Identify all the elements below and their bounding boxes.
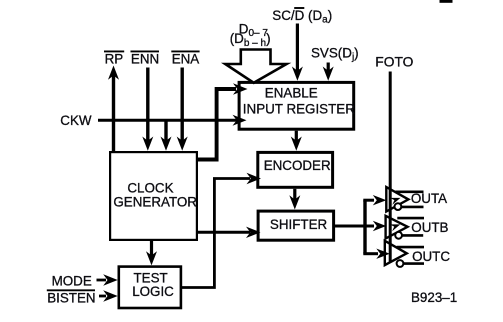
arrowhead into OUTA buffer edge	[373, 195, 387, 205]
svg-text:FOTO: FOTO	[375, 55, 413, 70]
label TEST LOGIC	[132, 270, 174, 299]
wire clock generator to test logic	[146, 241, 157, 265]
box CLOCK GENERATOR outline	[110, 152, 197, 240]
label ENABLE INPUT REGISTER	[243, 86, 355, 117]
wire test logic to encoder	[182, 173, 261, 288]
arrowhead into OUTB buffer edge	[373, 221, 387, 231]
arrowhead into OUTC buffer edge	[376, 249, 390, 259]
svg-text:TEST: TEST	[134, 270, 168, 285]
svg-text:ENCODER: ENCODER	[264, 158, 331, 173]
label SC/D (Da) with D overlined	[272, 8, 332, 26]
inner signal arrow of OUTA buffer	[390, 198, 401, 205]
svg-text:BISTEN: BISTEN	[47, 290, 95, 305]
svg-text:INPUT REGISTER: INPUT REGISTER	[243, 101, 355, 116]
OUTA top stub wire	[395, 191, 423, 194]
OUTA buffer enable bubble	[395, 203, 402, 210]
wire FOTO vertical	[389, 72, 392, 262]
box ENCODER outline	[258, 152, 333, 187]
wire RP vertical with up arrow	[108, 66, 119, 153]
label SHIFTER	[270, 217, 328, 232]
buffer U3 OUTC triangle	[385, 241, 407, 265]
wire MODE input arrow	[97, 274, 118, 285]
scan artifact top edge	[440, 0, 453, 3]
label BISTEN (overlined)	[47, 290, 96, 305]
buffer U2 OUTB triangle	[386, 216, 408, 239]
OUTA bottom stub wire from bubble	[401, 206, 423, 209]
label RP (overlined)	[104, 51, 124, 66]
svg-text:SC/D (Da): SC/D (Da)	[272, 8, 332, 26]
svg-text:LOGIC: LOGIC	[132, 284, 174, 299]
wire clock generator to shifter	[197, 227, 261, 238]
OUTC buffer enable bubble	[397, 260, 404, 267]
label D0-7	[239, 21, 269, 39]
svg-text:ENA: ENA	[172, 52, 200, 67]
label CLOCK GENERATOR	[113, 181, 197, 210]
wire branch to OUTC buffer	[363, 252, 378, 255]
OUTC top stub wire	[397, 246, 424, 249]
wire SC/D input to enable input register	[292, 24, 303, 81]
label ENN (overlined)	[131, 51, 160, 66]
wire BISTEN input arrow	[99, 290, 118, 301]
wire SVS input to enable input register	[323, 63, 334, 81]
wire CKW branch down into clock generator	[161, 120, 172, 151]
svg-text:SHIFTER: SHIFTER	[270, 217, 328, 232]
label ENCODER	[264, 158, 331, 173]
label B923-1	[411, 290, 457, 305]
wire clock generator to enable input register (feedback up)	[197, 83, 248, 159]
buffer U1 OUTA triangle	[386, 187, 408, 212]
svg-text:OUTC: OUTC	[412, 249, 450, 264]
wire enable input register to encoder	[291, 131, 302, 151]
wire ENN vertical with down arrow	[142, 68, 153, 151]
svg-text:GENERATOR: GENERATOR	[113, 195, 197, 210]
wire shifter to output buffers	[335, 225, 374, 228]
svg-text:CLOCK: CLOCK	[127, 181, 173, 196]
box SHIFTER outline	[258, 211, 334, 240]
wire CKW horizontal	[98, 115, 247, 126]
inner signal arrow of OUTB buffer	[390, 224, 401, 231]
wire branch to OUTA buffer	[363, 199, 374, 202]
label OUTB	[411, 220, 448, 235]
svg-text:MODE: MODE	[52, 274, 92, 289]
svg-text:B923–1: B923–1	[411, 290, 457, 305]
svg-text:RP: RP	[105, 52, 124, 67]
label (Db-h)	[230, 31, 271, 49]
box ENABLE INPUT REGISTER outline	[239, 82, 354, 129]
svg-text:OUTB: OUTB	[411, 220, 448, 235]
svg-text:CKW: CKW	[60, 113, 92, 128]
box TEST LOGIC outline	[119, 267, 181, 308]
svg-text:ENN: ENN	[131, 52, 159, 67]
label SVS(Dj)	[311, 45, 359, 63]
label FOTO	[375, 55, 413, 70]
OUTC bottom stub wire from bubble	[404, 262, 424, 265]
label MODE	[52, 274, 92, 289]
label CKW	[60, 113, 92, 128]
svg-text:ENABLE: ENABLE	[265, 86, 318, 101]
OUTB top stub wire	[397, 217, 424, 220]
wire encoder to shifter	[289, 189, 300, 210]
label ENA (overlined)	[171, 51, 199, 66]
wire ENA vertical with down arrow	[177, 68, 188, 151]
label OUTC	[412, 249, 450, 264]
label OUTA	[411, 191, 447, 206]
wire branch vertical to OUTA/OUTC buffers	[363, 200, 366, 254]
OUTB bottom stub wire from bubble	[402, 234, 423, 237]
svg-text:SVS(Dj): SVS(Dj)	[311, 45, 359, 63]
OUTB buffer enable bubble	[395, 232, 402, 239]
svg-text:OUTA: OUTA	[411, 191, 447, 206]
bus block arrow D0-7 into enable input register	[225, 50, 286, 83]
